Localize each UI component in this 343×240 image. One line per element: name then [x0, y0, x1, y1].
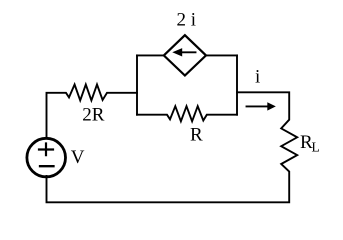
svg-text:2 i: 2 i [177, 10, 197, 31]
svg-text:2R: 2R [82, 104, 105, 125]
svg-text:V: V [71, 147, 85, 168]
svg-text:L: L [312, 140, 320, 155]
svg-text:R: R [190, 125, 203, 146]
svg-text:i: i [255, 67, 260, 88]
